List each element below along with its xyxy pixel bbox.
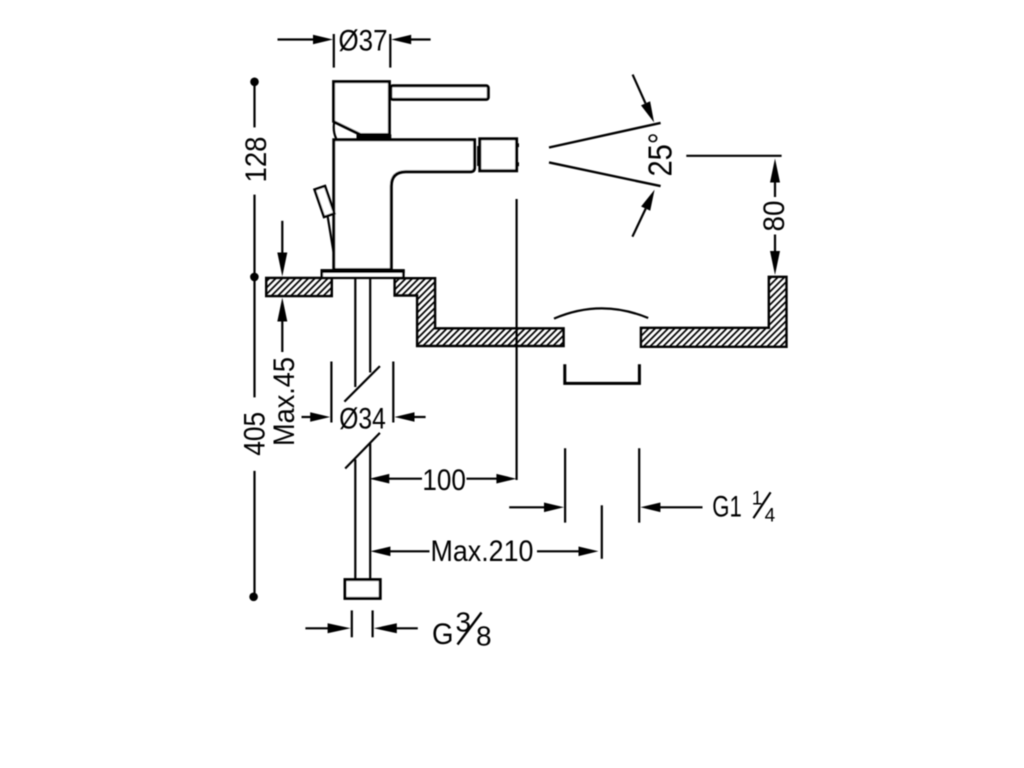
extension tick drain center: [601, 505, 603, 559]
base plate: [322, 270, 404, 277]
dim 128/405 dot middle: [250, 273, 259, 282]
dim line 100 left: [389, 478, 423, 480]
arrowhead 80 up: [770, 159, 780, 183]
arrowhead 100 left: [369, 474, 389, 484]
arrowhead Ø34 left: [310, 412, 330, 422]
dim 128/405 dot bottom: [249, 593, 258, 602]
faucet handle block: [334, 82, 390, 135]
svg-text:25°: 25°: [642, 133, 679, 177]
extension tick Ø37 right: [389, 34, 391, 68]
dim line G3/8 right leader: [397, 627, 418, 629]
dim line 128/405 middle: [253, 195, 255, 398]
supply pipe right line upper: [369, 278, 371, 373]
extension tick Ø34 right: [392, 362, 394, 423]
dim line Max.45 upper: [281, 221, 283, 254]
supply pipe right line lower: [369, 444, 371, 581]
extension tick G3/8 left: [351, 610, 353, 637]
spray cone upper line: [549, 123, 661, 148]
arrowhead G1-1/4 left: [544, 503, 564, 513]
arrowhead G3/8 left: [328, 623, 351, 633]
connector in gap: [477, 146, 479, 166]
ref line spout level: [686, 155, 781, 157]
arrowhead Max.210 right: [579, 547, 599, 557]
dim line 128: [253, 84, 255, 127]
label 1/4 slash: [753, 492, 770, 518]
dim line Max.210 left: [390, 550, 430, 552]
spout centerline: [515, 199, 517, 480]
svg-text:405: 405: [239, 412, 272, 456]
svg-text:8: 8: [476, 621, 492, 652]
countertop left block: [266, 278, 332, 296]
angle arrow bottom leader: [632, 209, 645, 237]
faucet lever: [391, 86, 489, 100]
supply nut: [345, 580, 380, 599]
dim line 100 right: [467, 478, 498, 480]
extension tick drain left: [564, 448, 566, 522]
arrowhead Ø34 right: [395, 412, 415, 422]
dim line G3/8 left leader: [305, 627, 328, 629]
dim 128/405 dot top: [250, 78, 259, 87]
extension tick Ø37 left: [333, 34, 335, 68]
dim line G1-1/4 right leader: [660, 506, 703, 508]
arrowhead 100 right: [496, 474, 516, 484]
aerator right bump top: [516, 143, 519, 147]
svg-text:Ø34: Ø34: [339, 403, 386, 436]
supply pipe left line upper: [354, 278, 356, 387]
svg-text:80: 80: [758, 201, 791, 232]
dim line Max.210 right: [537, 550, 579, 552]
pipe break slash upper: [344, 366, 380, 402]
pop-up rod: [328, 216, 334, 253]
dim line G1-1/4 left leader: [509, 506, 545, 508]
dim line 80 lower: [774, 235, 776, 252]
svg-text:G: G: [432, 618, 454, 651]
handle cartridge arc: [334, 122, 336, 139]
dim line Max.45 lower: [281, 320, 283, 352]
svg-text:Ø37: Ø37: [339, 25, 388, 58]
angle arrow top leader: [633, 75, 646, 104]
faucet body: [334, 140, 475, 270]
arrowhead Ø37 left: [313, 35, 333, 45]
dim line Ø34 left leader: [302, 416, 313, 418]
svg-text:G1: G1: [712, 490, 742, 523]
svg-text:100: 100: [422, 464, 466, 497]
dim line 80 upper: [774, 183, 776, 198]
dim line 405 lower: [253, 471, 255, 594]
arrowhead G1-1/4 right: [640, 503, 660, 513]
dim line Ø37 right leader: [410, 38, 431, 40]
water surface arc: [554, 308, 648, 318]
arrowhead G3/8 right: [374, 623, 397, 633]
arrowhead Max.45 up: [277, 298, 287, 322]
arrowhead Max.210 left: [370, 547, 390, 557]
aerator: [480, 139, 517, 171]
aerator right bump bottom: [516, 162, 519, 166]
extension tick Ø34 left: [330, 362, 332, 423]
dim line Ø37 left leader: [278, 38, 315, 40]
arrowhead Ø37 right: [391, 35, 411, 45]
pipe break slash lower: [345, 433, 380, 469]
handle seam (thick): [357, 134, 392, 141]
svg-text:Max.210: Max.210: [431, 535, 534, 568]
dim line Ø34 right leader: [414, 416, 426, 418]
spray cone lower line: [549, 162, 661, 186]
arrowhead Max.45 down: [277, 253, 287, 277]
extension tick G3/8 right: [372, 610, 374, 637]
svg-text:3: 3: [456, 607, 472, 638]
pop-up rod knob: [315, 186, 335, 217]
extension tick drain right: [638, 448, 640, 522]
label 3/8 slash: [458, 613, 482, 645]
angle arrowhead bottom: [641, 190, 655, 211]
svg-text:Max.45: Max.45: [268, 357, 301, 446]
basin right L-section: [641, 277, 787, 347]
drain bracket: [565, 364, 640, 383]
supply pipe left line lower: [354, 460, 356, 581]
svg-text:4: 4: [765, 505, 776, 526]
angle arrowhead top: [641, 101, 654, 122]
svg-text:128: 128: [240, 137, 273, 183]
basin Z-section: [395, 278, 564, 346]
arrowhead 80 down: [770, 251, 780, 275]
base plate thick top: [321, 269, 405, 273]
